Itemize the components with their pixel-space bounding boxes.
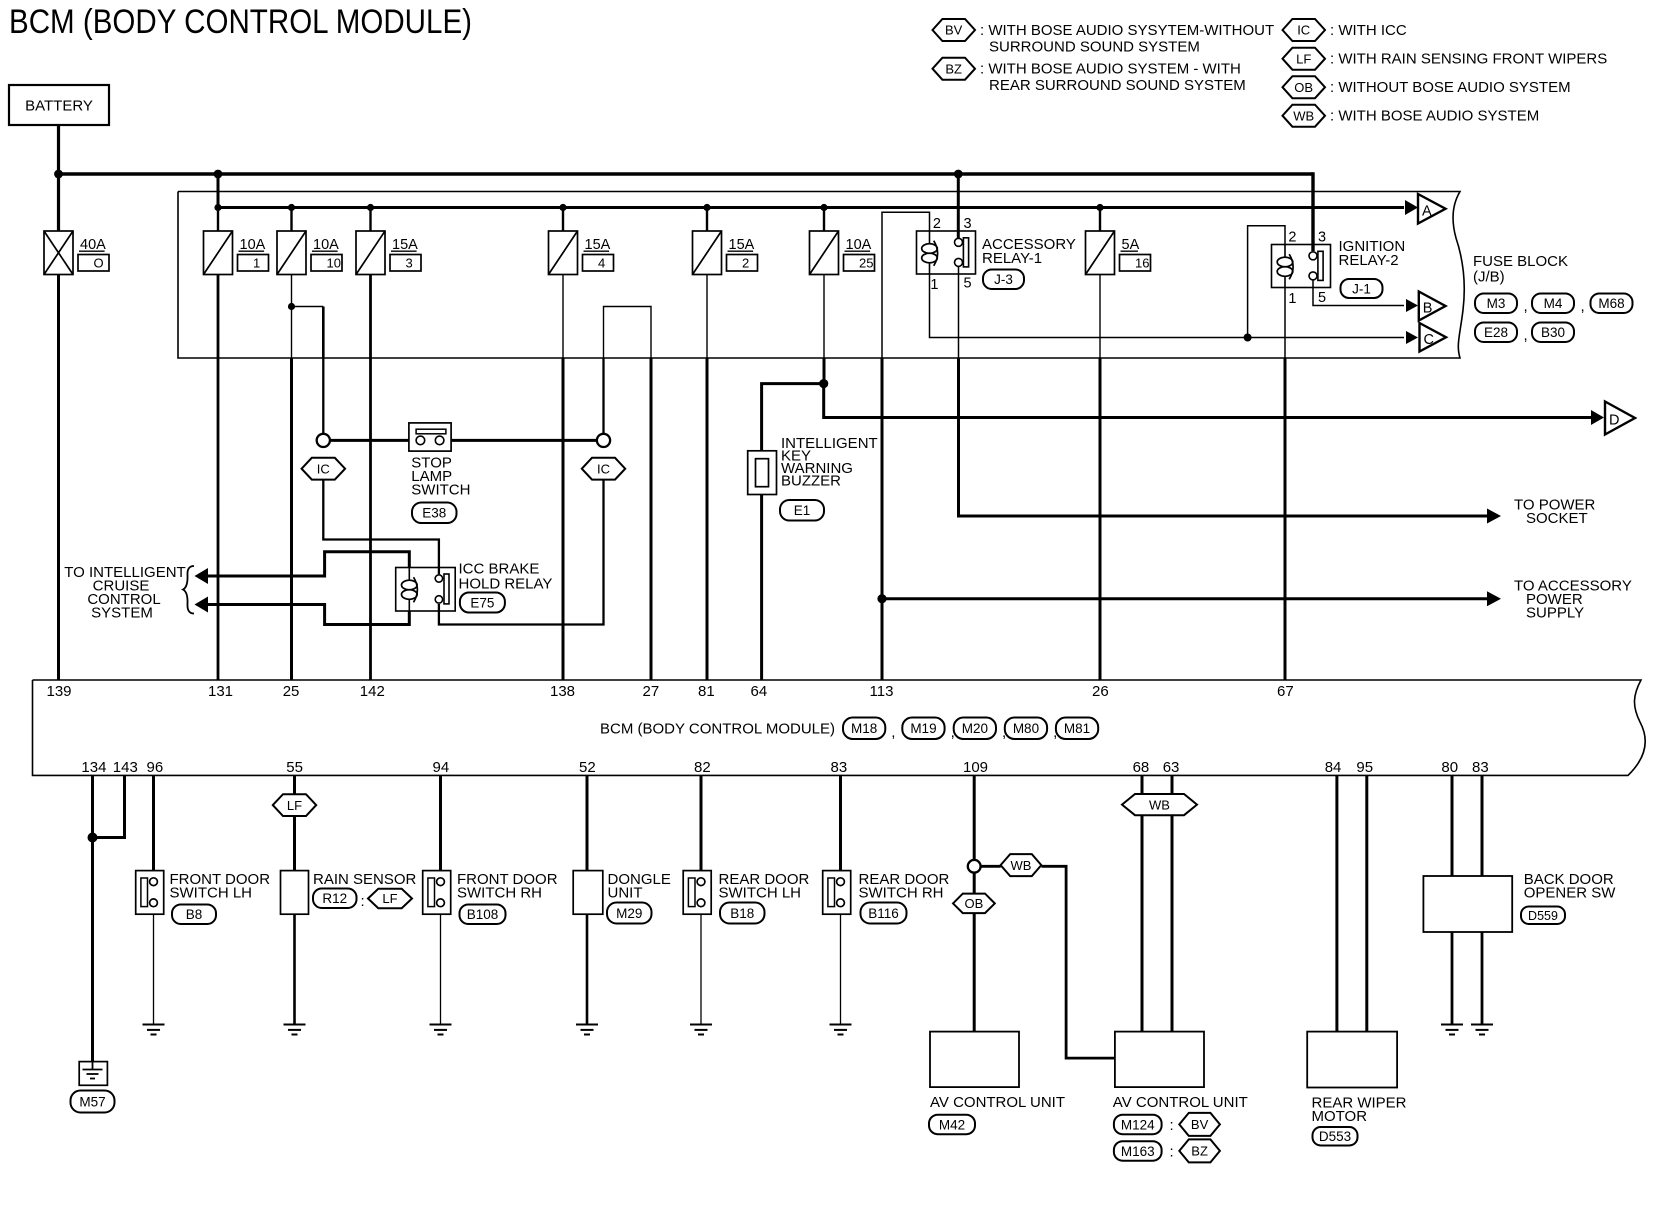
svg-text:WB: WB <box>1293 108 1314 123</box>
svg-text:1: 1 <box>253 255 260 270</box>
svg-text:68: 68 <box>1133 759 1150 776</box>
svg-text:143: 143 <box>113 759 138 776</box>
svg-text:IC: IC <box>1297 23 1310 38</box>
svg-text:HOLD RELAY: HOLD RELAY <box>459 576 553 593</box>
svg-text:M3: M3 <box>1487 296 1506 311</box>
svg-text:4: 4 <box>598 255 605 270</box>
svg-text:: WITH RAIN SENSING FRONT WIPE: : WITH RAIN SENSING FRONT WIPERS <box>1330 51 1607 68</box>
svg-text:M18: M18 <box>851 721 877 736</box>
svg-text::: : <box>1170 1117 1174 1134</box>
svg-text:M81: M81 <box>1064 721 1090 736</box>
svg-text:O: O <box>94 255 104 270</box>
svg-text:64: 64 <box>751 683 768 700</box>
svg-text:134: 134 <box>81 759 106 776</box>
svg-text:25: 25 <box>283 683 300 700</box>
svg-text:SYSTEM: SYSTEM <box>91 605 153 622</box>
svg-text:67: 67 <box>1277 683 1294 700</box>
svg-text:SWITCH RH: SWITCH RH <box>859 885 944 902</box>
svg-text:,: , <box>1581 298 1585 315</box>
svg-text:BV: BV <box>1191 1117 1209 1132</box>
svg-text:2: 2 <box>1288 230 1296 246</box>
svg-text:B30: B30 <box>1541 325 1565 340</box>
svg-text:B116: B116 <box>868 906 899 921</box>
svg-text:138: 138 <box>550 683 575 700</box>
svg-text:27: 27 <box>643 683 660 700</box>
svg-text::: : <box>1170 1144 1174 1161</box>
svg-text:A: A <box>1422 203 1432 219</box>
svg-text:M19: M19 <box>910 721 936 736</box>
svg-text:SUPPLY: SUPPLY <box>1526 605 1584 622</box>
svg-text::: : <box>361 893 365 910</box>
svg-text:AV CONTROL UNIT: AV CONTROL UNIT <box>930 1094 1065 1111</box>
svg-text:52: 52 <box>579 759 596 776</box>
svg-text:3: 3 <box>1318 230 1326 246</box>
svg-text:1: 1 <box>1288 291 1296 307</box>
svg-text:(J/B): (J/B) <box>1473 269 1505 286</box>
svg-text:SWITCH: SWITCH <box>411 482 470 499</box>
svg-text:E28: E28 <box>1484 325 1508 340</box>
svg-text:2: 2 <box>742 255 749 270</box>
svg-text:B18: B18 <box>730 906 754 921</box>
svg-text:IC: IC <box>597 461 610 476</box>
svg-text:LF: LF <box>1296 51 1311 66</box>
svg-text:,: , <box>1524 298 1528 315</box>
svg-text:E38: E38 <box>422 506 446 521</box>
svg-text:J-3: J-3 <box>994 272 1013 287</box>
svg-text:M163: M163 <box>1121 1144 1155 1159</box>
svg-text:AV CONTROL UNIT: AV CONTROL UNIT <box>1113 1094 1248 1111</box>
svg-text:M57: M57 <box>79 1094 105 1109</box>
svg-text:D559: D559 <box>1528 909 1558 923</box>
svg-text:131: 131 <box>208 683 233 700</box>
svg-text:142: 142 <box>360 683 385 700</box>
svg-text:IC: IC <box>317 461 330 476</box>
svg-text:OPENER SW: OPENER SW <box>1524 885 1617 902</box>
svg-text:BATTERY: BATTERY <box>25 98 93 115</box>
svg-text:D: D <box>1609 413 1619 429</box>
svg-text:3: 3 <box>406 255 413 270</box>
svg-text:,: , <box>1524 327 1528 344</box>
svg-text:C: C <box>1424 332 1434 348</box>
svg-text:BZ: BZ <box>945 61 962 76</box>
svg-text:RAIN SENSOR: RAIN SENSOR <box>313 871 417 888</box>
svg-text:RELAY-1: RELAY-1 <box>982 250 1042 267</box>
svg-text:SWITCH LH: SWITCH LH <box>170 885 253 902</box>
svg-text:M29: M29 <box>616 906 642 921</box>
svg-text:55: 55 <box>286 759 303 776</box>
svg-text:83: 83 <box>1472 759 1489 776</box>
svg-text:OB: OB <box>1294 80 1313 95</box>
svg-text:10: 10 <box>327 255 341 270</box>
svg-text:82: 82 <box>694 759 711 776</box>
svg-text:B108: B108 <box>467 907 499 922</box>
svg-text:96: 96 <box>147 759 164 776</box>
svg-text:95: 95 <box>1356 759 1373 776</box>
svg-text:M68: M68 <box>1598 296 1624 311</box>
svg-text:2: 2 <box>933 216 941 232</box>
svg-text:: WITH BOSE AUDIO SYSTEM: : WITH BOSE AUDIO SYSTEM <box>1330 108 1539 125</box>
svg-text:UNIT: UNIT <box>608 885 643 902</box>
svg-text:: WITHOUT BOSE AUDIO SYSTEM: : WITHOUT BOSE AUDIO SYSTEM <box>1330 79 1571 96</box>
svg-text:25: 25 <box>859 255 873 270</box>
svg-text:M20: M20 <box>962 721 988 736</box>
svg-text:M80: M80 <box>1013 721 1039 736</box>
svg-text:B8: B8 <box>186 907 203 922</box>
svg-text:SURROUND SOUND SYSTEM: SURROUND SOUND SYSTEM <box>989 39 1200 56</box>
svg-text:BUZZER: BUZZER <box>781 473 841 490</box>
svg-text:94: 94 <box>433 759 450 776</box>
svg-text:139: 139 <box>47 683 72 700</box>
svg-text:3: 3 <box>964 216 972 232</box>
svg-text:109: 109 <box>963 759 988 776</box>
svg-text:FUSE BLOCK: FUSE BLOCK <box>1473 253 1568 270</box>
svg-text:E1: E1 <box>794 503 811 518</box>
svg-text:113: 113 <box>870 683 894 700</box>
svg-text:63: 63 <box>1163 759 1180 776</box>
svg-text:1: 1 <box>930 277 938 293</box>
svg-text:OB: OB <box>965 896 984 911</box>
svg-text:BV: BV <box>945 23 963 38</box>
svg-text:SWITCH LH: SWITCH LH <box>719 885 802 902</box>
svg-text:BCM (BODY CONTROL MODULE): BCM (BODY CONTROL MODULE) <box>600 721 835 738</box>
svg-text:LF: LF <box>287 798 302 813</box>
svg-text:81: 81 <box>698 683 715 700</box>
svg-text:MOTOR: MOTOR <box>1312 1108 1368 1125</box>
svg-text:26: 26 <box>1092 683 1109 700</box>
svg-text:REAR SURROUND SOUND SYSTEM: REAR SURROUND SOUND SYSTEM <box>989 77 1246 94</box>
svg-text:E75: E75 <box>470 595 494 610</box>
svg-text:J-1: J-1 <box>1352 281 1371 296</box>
svg-text:: WITH ICC: : WITH ICC <box>1330 22 1407 39</box>
svg-text:: WITH BOSE AUDIO SYSTEM - WIT: : WITH BOSE AUDIO SYSTEM - WITH <box>980 61 1241 78</box>
svg-text:BZ: BZ <box>1191 1144 1208 1159</box>
svg-text:B: B <box>1423 301 1433 317</box>
svg-text:80: 80 <box>1441 759 1458 776</box>
svg-text:R12: R12 <box>322 891 347 906</box>
svg-text:M124: M124 <box>1121 1117 1155 1132</box>
svg-text:D553: D553 <box>1319 1129 1351 1144</box>
svg-text:: WITH BOSE AUDIO SYSYTEM-WITH: : WITH BOSE AUDIO SYSYTEM-WITHOUT <box>980 22 1274 39</box>
svg-text:RELAY-2: RELAY-2 <box>1339 252 1399 269</box>
svg-text:M42: M42 <box>939 1117 965 1132</box>
svg-text:84: 84 <box>1325 759 1342 776</box>
svg-text:SWITCH RH: SWITCH RH <box>457 885 542 902</box>
svg-text:5: 5 <box>964 276 972 292</box>
svg-text:83: 83 <box>831 759 848 776</box>
svg-text:,: , <box>891 724 895 741</box>
svg-text:WB: WB <box>1149 797 1170 812</box>
svg-text:5: 5 <box>1318 290 1326 306</box>
svg-text:LF: LF <box>382 891 397 906</box>
svg-text:16: 16 <box>1135 255 1149 270</box>
svg-text:BCM (BODY CONTROL MODULE): BCM (BODY CONTROL MODULE) <box>9 3 472 41</box>
svg-text:M4: M4 <box>1544 296 1563 311</box>
svg-text:WB: WB <box>1011 858 1032 873</box>
svg-text:SOCKET: SOCKET <box>1526 510 1588 527</box>
